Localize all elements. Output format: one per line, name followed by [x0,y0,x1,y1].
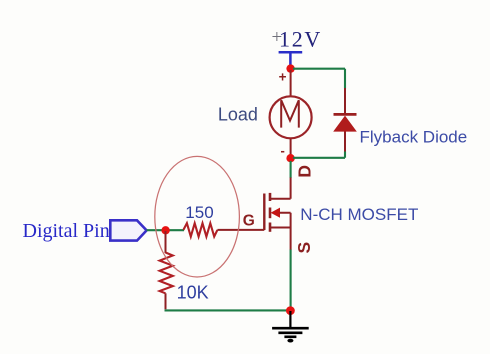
wire: drain vertical (green part) [290,161,292,178]
ground: bar 2 [278,331,302,334]
MOSFET Q1: body link to source [280,213,291,228]
flyback diode D1: cathode bar [334,113,357,116]
MOSFET Q1: channel top bar [269,193,272,201]
ground: bottom dot [287,339,293,343]
node: top junction dot [286,64,294,72]
wire: bottom ground rail (green) [165,309,291,311]
wire: drain vertical (red part) + horizontal to channel [270,178,291,199]
ground: bar 1 [272,327,309,330]
svg-text:10K: 10K [177,283,209,303]
node: ground junction dot [286,306,295,315]
MOSFET Q1: channel bottom bar [269,223,272,232]
wire: junction to motor top (red lead) [290,70,292,96]
wire: top junction to diode top (green) [293,69,345,89]
svg-text:+: + [279,69,287,84]
svg-text:Flyback Diode: Flyback Diode [360,128,468,147]
resistor R2 10K (vertical zigzag) [160,253,173,294]
svg-text:N-CH MOSFET: N-CH MOSFET [300,205,418,224]
wire: diode bottom to bottom junction (green) [293,152,345,158]
svg-text:S: S [294,242,314,254]
flyback diode D1: cathode lead (red, top) [344,88,346,114]
MOSFET Q1: gate plate [263,194,265,231]
power symbol +12V (bar and stem) [279,52,303,66]
wire: source to ground rail (green) [290,250,292,309]
svg-text:Load: Load [218,105,258,125]
svg-text:-: - [281,143,285,158]
flyback diode D1: anode lead (red, bottom) [344,131,346,153]
resistor R1 150 (zigzag) [183,223,217,236]
wire: resistor to gate (red) [217,229,264,231]
node: left junction dot [161,226,169,234]
pin connector (Digital Pin) [110,220,146,240]
wire: junction down to R2 (red) [165,231,167,253]
MOSFET Q1: body arrow (points left) [271,208,280,218]
svg-text:D: D [295,165,315,178]
wire: R2 bottom lead (red) [165,293,167,309]
svg-text:150: 150 [185,203,213,222]
svg-text:Digital Pin: Digital Pin [23,220,110,242]
MOSFET Q1: channel middle bar [269,208,272,219]
node: bottom junction dot [286,154,294,162]
motor M1 circle [270,96,312,138]
wire: pin to resistor (green) [147,229,184,231]
svg-text:+12V: +12V [272,27,323,52]
motor letter M [281,100,299,127]
highlight ellipse (red annotation) [155,156,240,277]
MOSFET Q1: source stub [270,227,291,229]
ground: bar 3 [284,335,296,338]
wire: motor bottom lead (red) [290,138,292,157]
svg-text:G: G [243,212,255,229]
wire: source lead (red part) [290,228,292,251]
flyback diode D1: triangle (anode, pointing up) [333,116,357,132]
ground: stem [289,311,291,327]
